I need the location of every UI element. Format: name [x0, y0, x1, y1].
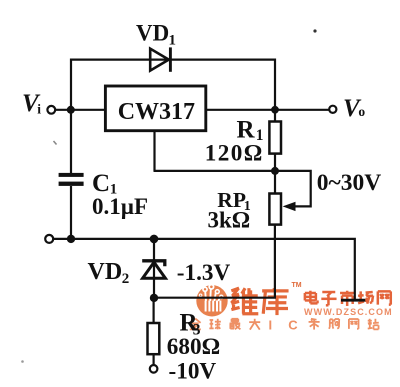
svg-text:R: R: [237, 117, 256, 144]
node: junction left rail on common line: [67, 235, 75, 243]
svg-text:WWW.DZSC.COM: WWW.DZSC.COM: [304, 307, 393, 317]
svg-text:I: I: [269, 318, 273, 333]
diode VD1: [150, 47, 170, 71]
node: -10V terminal: [150, 365, 158, 373]
wire: top rail with VD1, y=59: [71, 58, 275, 60]
wire: left rail x=71 upper segment: [70, 59, 72, 174]
svg-text:TM: TM: [292, 282, 302, 289]
resistor R3: [148, 323, 160, 354]
watermark site name characters: [305, 291, 391, 306]
svg-text:VD: VD: [136, 21, 169, 46]
scan speck bottom left: [21, 360, 24, 363]
node: Vi input terminal: [47, 106, 55, 114]
watermark logo disc: [196, 284, 227, 317]
capacitor C1: [59, 173, 84, 186]
wire: right rail x=275 from top rail to output line: [274, 59, 276, 110]
wire: ADJ line to R1/RP1 junction and on to wiper corner: [154, 171, 311, 207]
potentiometer RP1: [269, 194, 295, 225]
wire: CW317 output to Vo terminal: [207, 109, 329, 111]
wire: bottom line from VD2/R3 junction to RP1 bottom: [154, 225, 275, 298]
wire: common line y=239 with right drop x=355: [54, 239, 355, 299]
op-amp-box regulator U1 CW317: [105, 86, 205, 131]
svg-text:CW317: CW317: [118, 99, 195, 125]
svg-text:C: C: [288, 318, 298, 333]
svg-text:VD: VD: [88, 259, 123, 285]
svg-text:0~30V: 0~30V: [317, 170, 381, 196]
wire: R1 top stub: [274, 110, 276, 122]
svg-text:0.1µF: 0.1µF: [92, 194, 148, 219]
wire: R3 bottom stub: [153, 354, 155, 365]
scan speck left: [54, 141, 57, 145]
resistor R1: [269, 122, 281, 154]
node: junction Vi rail: [67, 106, 75, 114]
wire: left rail x=71 lower segment below C1: [70, 186, 72, 239]
svg-text:1: 1: [169, 32, 177, 48]
svg-text:2: 2: [122, 271, 130, 287]
scan speck top right: [313, 29, 316, 32]
wire: VD2 branch x=154: [153, 239, 155, 298]
wire: CW317 ADJ pin down: [153, 132, 155, 171]
svg-text:120Ω: 120Ω: [205, 141, 264, 167]
svg-text:C: C: [92, 170, 110, 197]
watermark slogan characters: [190, 318, 379, 333]
wire: RP1 top stub: [274, 171, 276, 194]
node: junction ADJ/R1/RP1: [271, 167, 279, 175]
node: Vo output terminal: [329, 106, 336, 113]
watermark brand characters: [231, 288, 288, 315]
wire: bottom-right stub: [341, 299, 365, 302]
wire: R3 top stub: [153, 298, 155, 323]
node: common line left terminal: [45, 235, 53, 243]
wire: Vi terminal to CW317 input: [56, 109, 105, 111]
node: junction output rail: [271, 106, 279, 114]
svg-text:3kΩ: 3kΩ: [208, 207, 251, 232]
svg-text:i: i: [37, 102, 41, 117]
svg-text:-1.3V: -1.3V: [177, 260, 231, 286]
diode VD2 (zener): [142, 261, 165, 278]
node: junction VD2 bottom / R3: [150, 294, 158, 302]
node: junction VD2 top on common line: [150, 235, 159, 244]
wire: R1 bottom stub: [274, 154, 276, 171]
svg-text:-10V: -10V: [169, 359, 217, 385]
svg-text:680Ω: 680Ω: [167, 334, 220, 360]
svg-text:o: o: [358, 104, 365, 119]
